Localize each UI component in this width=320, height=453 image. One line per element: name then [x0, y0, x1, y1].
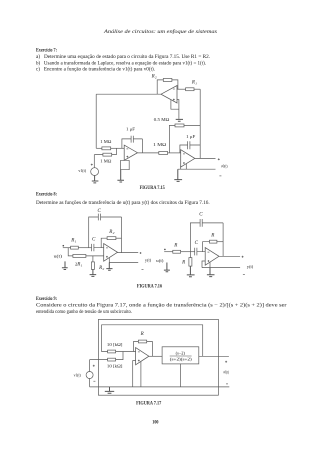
label 1 MOhm (input resistor A): [100, 139, 112, 144]
wire branch to 2R1: [68, 248, 73, 256]
svg-text:C: C: [98, 209, 102, 214]
minus mark output right: [243, 273, 245, 275]
ground below U2: [174, 169, 182, 181]
wire lower output rail right: [202, 267, 240, 269]
label 2R1: [75, 261, 83, 267]
label 10 kOhm lower: [107, 363, 123, 368]
svg-text:Análise de circuitos: um enfoq: Análise de circuitos: um enfoque de sist…: [103, 28, 217, 35]
wire output right circuit: [219, 255, 240, 257]
wire R1 to series C: [78, 247, 91, 249]
wire source bottom to rail: [89, 379, 91, 387]
svg-text:R: R: [140, 332, 144, 337]
resistor R series right: [173, 250, 181, 253]
wire bus into resistor A: [96, 147, 102, 149]
svg-text:1: 1: [195, 82, 197, 86]
wire junction down to bias R right: [189, 252, 191, 258]
series capacitor C right circuit: [195, 248, 206, 256]
exercise 8 heading: [36, 191, 57, 197]
wire U3 output to left bus: [96, 93, 161, 95]
wire output left circuit: [118, 252, 139, 254]
svg-text:y(t): y(t): [145, 258, 152, 263]
wire R2 left to U3 output: [157, 80, 163, 94]
exercise 7 item b: [36, 61, 206, 66]
svg-text:R: R: [210, 233, 214, 238]
caption figura 7.16: [137, 284, 163, 289]
subcircuit boundary box: [98, 319, 218, 395]
svg-text:1: 1: [81, 263, 83, 267]
svg-text:10 [kΩ]: 10 [kΩ]: [107, 363, 123, 368]
label C top right circuit: [199, 213, 203, 218]
plus mark output left circuit: [140, 252, 142, 254]
svg-text:2: 2: [155, 76, 157, 80]
svg-text:C: C: [195, 241, 199, 246]
wire resistor B to junction: [112, 148, 117, 154]
wire plus input down to lower rail: [108, 258, 110, 263]
ground below A1: [106, 263, 112, 271]
resistor R1 left circuit: [71, 246, 79, 249]
svg-text:1 μF: 1 μF: [126, 126, 136, 131]
svg-text:2: 2: [103, 267, 105, 271]
source v1: [91, 168, 99, 176]
op-amp U1 (first integrator): [124, 145, 137, 160]
op-amp A2 right circuit: [205, 248, 219, 266]
wire feedback R right: [203, 242, 210, 252]
wire 0.5 MOhm left down to U2 input node: [169, 125, 175, 152]
wire U1 output to middle resistor: [138, 152, 159, 154]
svg-text:FIGURA 7.16: FIGURA 7.16: [137, 284, 163, 289]
wire lower output rail: [178, 168, 216, 170]
wire feedback R right vertical: [147, 342, 153, 357]
transfer function block: [162, 347, 199, 364]
wire bottom rail: [90, 386, 230, 388]
svg-text:0.5 MΩ: 0.5 MΩ: [154, 117, 170, 122]
wire jog below U2: [181, 164, 187, 170]
exercise 7 heading: [36, 48, 57, 54]
ground on bottom rail: [105, 387, 114, 393]
capacitor C2 feedback U2: [180, 141, 200, 153]
label C series left circuit: [92, 238, 96, 243]
svg-text:v1(t): v1(t): [78, 168, 86, 173]
label 10 kOhm upper: [107, 342, 123, 347]
exercise 9 line 2: [36, 310, 132, 315]
ground below bias resistor: [90, 269, 97, 276]
resistor 10 kOhm upper: [108, 350, 116, 353]
wire right bus vertical (v0 node): [199, 89, 201, 158]
label y(t) right circuit: [247, 264, 254, 269]
resistor R feedback right: [210, 240, 217, 243]
label R2: [151, 75, 157, 80]
svg-text:(s+2)(s+2): (s+2)(s+2): [170, 357, 192, 362]
minus mark output left circuit: [142, 269, 144, 271]
svg-text:1 MΩ: 1 MΩ: [100, 159, 112, 164]
svg-text:c) Encontre a função de tran: c) Encontre a função de transferência de…: [36, 68, 155, 73]
wire block output: [199, 355, 229, 357]
svg-text:R: R: [173, 243, 177, 248]
wire jog below U3: [171, 100, 179, 109]
svg-text:Considere o circuito da Figura: Considere o circuito da Figura 7.17, ond…: [36, 303, 287, 308]
resistor R bias right (vertical): [189, 258, 192, 267]
label R2 left circuit: [108, 230, 114, 235]
wire feedback R left vertical: [134, 342, 139, 352]
wire lower output rail left circuit: [109, 262, 138, 264]
wire left bus vertical: [95, 94, 97, 148]
wire upper resistor to op-amp input: [116, 351, 136, 353]
label R1 left circuit: [70, 238, 76, 243]
svg-text:100: 100: [152, 420, 159, 425]
resistor 1 MOhm middle: [159, 152, 168, 155]
wire 0.5 MOhm right to v0 bus: [184, 124, 200, 126]
svg-text:R: R: [181, 261, 185, 266]
wire middle resistor to U2 input: [168, 152, 181, 154]
svg-text:1 μF: 1 μF: [186, 134, 196, 139]
label u(t) left: [54, 254, 63, 259]
label 1 uF (U1): [126, 126, 136, 131]
label R2 bias: [98, 266, 104, 271]
minus mark output fig717: [226, 383, 228, 385]
wire R1 to right bus: [194, 88, 200, 90]
resistor R2 bias (vertical): [91, 262, 94, 270]
label y(t) left circuit: [145, 258, 152, 263]
wire source to resistor B: [94, 155, 103, 168]
svg-text:v0(t): v0(t): [221, 164, 228, 169]
svg-text:b) Usando a transformada de: b) Usando a transformada de Laplace, res…: [36, 61, 206, 66]
page number: [152, 420, 159, 425]
svg-text:C: C: [199, 213, 203, 218]
label v1(t): [78, 168, 86, 173]
svg-text:FIGURA 7.17: FIGURA 7.17: [136, 402, 162, 407]
label R1: [191, 81, 197, 86]
resistor 1 MOhm B: [103, 153, 112, 156]
label R feedback right: [210, 233, 214, 238]
label 1 MOhm (input resistor B): [100, 159, 112, 164]
svg-text:Exercício 7:: Exercício 7:: [36, 48, 57, 54]
resistor R2: [163, 79, 172, 82]
op-amp U3 (inverter, points left): [161, 86, 177, 104]
caption figura 7.17: [136, 402, 162, 407]
label 1 uF (U2): [186, 134, 196, 139]
wire feedback loop to summing resistor: [102, 325, 203, 357]
svg-text:entendida como ganho de tensão: entendida como ganho de tensão de um sub…: [36, 310, 132, 315]
svg-text:FIGURA 7.15: FIGURA 7.15: [140, 186, 166, 191]
exercise 9 heading: [36, 296, 57, 302]
minus mark output: [219, 175, 221, 177]
svg-text:y(t): y(t): [247, 264, 254, 269]
right circuit: input terminal: [164, 249, 166, 251]
svg-text:10 [kΩ]: 10 [kΩ]: [107, 342, 123, 347]
exercise 8 text: [36, 201, 210, 206]
wire input to R1: [63, 247, 71, 249]
caption figura 7.15: [140, 186, 166, 191]
wire R to series C right: [181, 251, 195, 253]
label u(t) right: [156, 258, 164, 263]
svg-text:Exercício 8:: Exercício 8:: [36, 191, 57, 197]
svg-text:Determine as funções de transf: Determine as funções de transferência de…: [36, 201, 210, 206]
plus mark source fig717: [93, 365, 95, 367]
capacitor C1 feedback U1: [122, 136, 142, 153]
ground below U1: [117, 170, 124, 182]
op-amp U2 (second integrator): [181, 150, 195, 167]
wire lower resistor up to summing junction: [116, 352, 123, 360]
wire 2R1 to plus input: [86, 255, 104, 257]
label 1 MOhm (middle resistor): [153, 142, 167, 147]
plus mark output: [218, 158, 220, 160]
wire R2 to output vertical: [116, 237, 122, 239]
label R bias right: [181, 261, 185, 266]
wire plus input loop right: [202, 261, 210, 268]
svg-text:C: C: [92, 238, 96, 243]
wire R2 right to U3 inverting input: [172, 80, 178, 89]
label v0(t) fig717: [223, 369, 229, 374]
svg-text:1: 1: [75, 239, 77, 243]
svg-text:R: R: [76, 262, 80, 267]
series capacitor C left circuit: [92, 244, 104, 251]
svg-text:2: 2: [113, 231, 115, 235]
svg-text:1 MΩ: 1 MΩ: [100, 139, 112, 144]
label C top left circuit: [98, 209, 102, 214]
page header: [103, 28, 217, 35]
svg-text:u(t): u(t): [156, 258, 164, 263]
plus mark source v1: [91, 164, 93, 166]
exercise 9 line 1: [36, 303, 287, 308]
resistor R2 feedback left circuit: [107, 237, 116, 240]
left circuit: input terminal: [63, 245, 65, 247]
resistor R1: [186, 88, 194, 91]
wire R feedback to output vertical: [217, 241, 223, 243]
label R feedback fig717: [140, 332, 144, 337]
exercise 7 item a: [36, 55, 210, 60]
label v1(t) fig717: [74, 372, 82, 377]
resistor R feedback fig717: [138, 340, 146, 343]
svg-text:v1(t): v1(t): [74, 372, 82, 377]
source v1 fig717: [86, 372, 93, 379]
plus mark output fig717: [225, 361, 227, 363]
ground below bias R right: [187, 266, 195, 277]
wire jog below U1: [121, 160, 130, 169]
resistor 10 kOhm lower: [108, 358, 116, 361]
svg-text:u(t): u(t): [54, 254, 63, 259]
ground below u(t) left: [62, 261, 68, 269]
label 0.5 MOhm: [154, 117, 170, 122]
plus mark output right: [242, 256, 244, 258]
resistor 2R1: [73, 255, 86, 258]
wire plus input to rail: [133, 361, 141, 387]
resistor 1 MOhm A: [102, 147, 111, 150]
wire input to R series right: [164, 251, 173, 253]
svg-text:(s−2): (s−2): [176, 351, 186, 356]
svg-text:v0(t): v0(t): [223, 369, 229, 374]
label v0(t): [221, 164, 228, 169]
wire source top: [89, 360, 91, 372]
minus mark source fig717: [93, 380, 95, 382]
wire U3 minus input to R1: [177, 88, 186, 90]
wire op-amp output to block: [149, 355, 162, 357]
wire junction down to bias resistor: [92, 256, 94, 262]
wire block ground stem: [179, 364, 181, 387]
op-amp A3 fig717: [136, 348, 149, 365]
wire U2 output: [195, 157, 216, 159]
wire mid feedback to R2: [101, 238, 107, 248]
exercise 7 item c: [36, 68, 155, 73]
ground below A2: [207, 268, 215, 277]
wire top feedback loop with capacitor C: [89, 214, 122, 253]
wire source to lower resistor: [90, 359, 108, 361]
wire U3 plus input down: [177, 100, 179, 119]
resistor 0.5 MOhm: [175, 124, 184, 127]
svg-text:a) Determine uma equação de: a) Determine uma equação de estado para …: [36, 55, 210, 60]
ground below source v1: [92, 176, 99, 183]
label C series right circuit: [195, 241, 199, 246]
svg-text:Exercício 9:: Exercício 9:: [36, 296, 57, 302]
label R series right: [173, 243, 177, 248]
ground below u(t) right: [164, 263, 170, 272]
wire resistor A to U1 input: [111, 147, 125, 149]
wire top feedback loop right with capacitor C: [190, 219, 223, 257]
op-amp A1 left circuit: [104, 244, 118, 262]
svg-text:1 MΩ: 1 MΩ: [153, 142, 167, 147]
ground below U3: [176, 119, 183, 121]
